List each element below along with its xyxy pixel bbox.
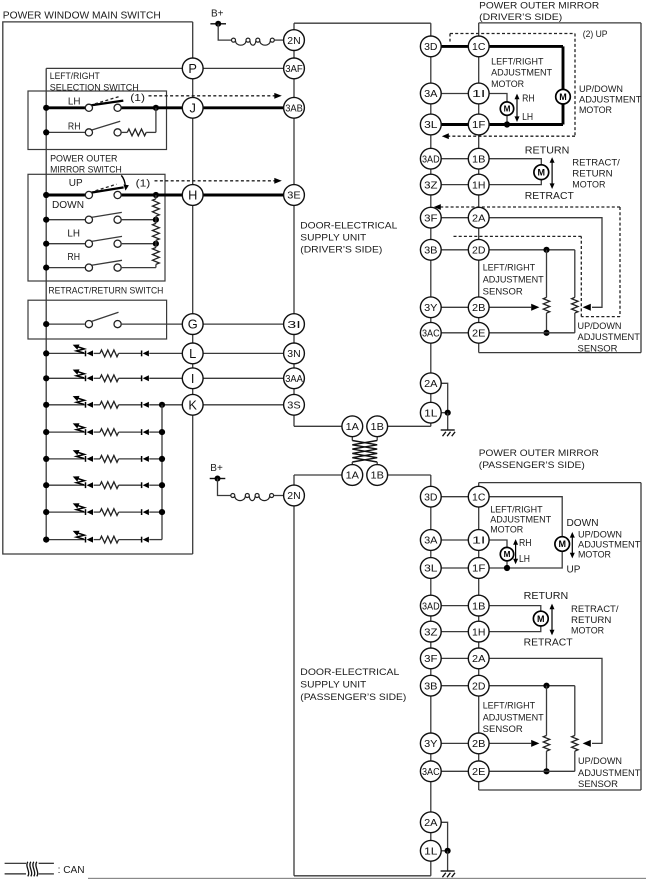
- connector 1B (lower mirror): [468, 595, 489, 616]
- bus for lower resistor rows: [161, 405, 163, 540]
- svg-text:(DRIVER’S SIDE): (DRIVER’S SIDE): [300, 244, 382, 254]
- wire supply-mirror row: [441, 93, 468, 95]
- connector 3AA: [284, 368, 305, 389]
- svg-text:M: M: [504, 105, 511, 114]
- svg-text:3AD: 3AD: [422, 154, 440, 165]
- wire K-3S: [203, 404, 284, 406]
- power outer mirror switch box: [28, 174, 165, 281]
- svg-text:3B: 3B: [424, 681, 438, 692]
- up/down adjustment motor M: [556, 89, 571, 104]
- svg-text:1B: 1B: [371, 471, 385, 482]
- connector J: [182, 97, 203, 118]
- connector 1I (lower mirror): [468, 530, 489, 551]
- connector 1L (upper supply): [420, 402, 441, 423]
- svg-text:RETURN: RETURN: [525, 146, 570, 157]
- svg-text:RETRACT/: RETRACT/: [572, 157, 620, 167]
- svg-text:SENSOR: SENSOR: [483, 287, 523, 297]
- svg-text:LEFT/RIGHT: LEFT/RIGHT: [490, 505, 543, 515]
- svg-text:MOTOR: MOTOR: [571, 626, 604, 636]
- svg-text:3AD: 3AD: [422, 601, 440, 612]
- wire supply-mirror row (passenger): [441, 770, 468, 772]
- svg-text:LH: LH: [68, 97, 81, 108]
- svg-text:3AF: 3AF: [285, 64, 303, 75]
- svg-text:2E: 2E: [472, 329, 486, 340]
- svg-text:DOOR-ELECTRICAL: DOOR-ELECTRICAL: [300, 667, 399, 677]
- adjustable resistor row 4 (unlabeled): [46, 511, 85, 513]
- connector 2B (lower mirror): [468, 733, 489, 754]
- connector 2A (lower mirror): [468, 648, 489, 669]
- svg-text:SENSOR: SENSOR: [578, 779, 618, 789]
- linkage arrows RH/LH (passenger): [515, 542, 517, 562]
- svg-text:2B: 2B: [472, 739, 486, 750]
- connector 3Z (lower supply): [420, 621, 441, 642]
- svg-text:RH: RH: [519, 538, 532, 549]
- svg-text:3Z: 3Z: [424, 180, 437, 191]
- svg-text:RH: RH: [67, 252, 80, 263]
- svg-text:RETRACT/RETURN SWITCH: RETRACT/RETURN SWITCH: [48, 286, 163, 296]
- wire supply-mirror row (passenger): [441, 742, 468, 744]
- up/down adjustment motor M (passenger): [555, 537, 570, 552]
- svg-text:1L: 1L: [424, 408, 438, 419]
- wire 2A-1L ground (upper): [441, 383, 448, 412]
- svg-text:2D: 2D: [472, 246, 485, 257]
- adjustable resistor row K: [46, 404, 85, 406]
- svg-text:3I: 3I: [287, 320, 300, 331]
- wire supply-mirror row (passenger): [441, 631, 468, 633]
- svg-text:RH: RH: [68, 122, 81, 133]
- svg-text:3L: 3L: [424, 120, 438, 131]
- svg-text:3AC: 3AC: [422, 767, 440, 778]
- wire supply-mirror row: [441, 306, 468, 308]
- svg-text:POWER OUTER MIRROR: POWER OUTER MIRROR: [479, 1, 599, 11]
- svg-text:3Y: 3Y: [424, 739, 438, 750]
- left/right adjustment sensor resistor (passenger): [546, 686, 548, 736]
- svg-text:(PASSENGER’S SIDE): (PASSENGER’S SIDE): [300, 692, 406, 702]
- svg-text:ADJUSTMENT: ADJUSTMENT: [483, 712, 544, 722]
- adjustable resistor row 3 (unlabeled): [46, 484, 85, 486]
- svg-text:MIRROR SWITCH: MIRROR SWITCH: [50, 164, 122, 174]
- svg-text:L: L: [189, 346, 196, 361]
- CAN legend symbol: [5, 862, 26, 864]
- connector 1H (upper mirror): [468, 174, 489, 195]
- switch RH row: [46, 131, 86, 133]
- CAN twisted pair: [351, 437, 353, 441]
- wire supply-mirror row (passenger): [441, 657, 468, 659]
- connector 3Y (upper supply): [420, 297, 441, 318]
- wire supply-mirror row: [441, 332, 468, 334]
- svg-text:H: H: [188, 188, 197, 203]
- connector 2A (upper mirror): [468, 207, 489, 228]
- svg-text:3AB: 3AB: [285, 104, 303, 115]
- B+ feed lower: [210, 478, 226, 480]
- connector 1H (lower mirror): [468, 621, 489, 642]
- power window main switch box: [3, 22, 193, 554]
- linkage arrows return/retract (passenger): [551, 607, 553, 633]
- wire supply-mirror row: [441, 158, 468, 160]
- svg-text:2D: 2D: [472, 681, 485, 692]
- svg-text:K: K: [188, 397, 197, 412]
- connector 3F (lower supply): [420, 648, 441, 669]
- connector 3A (lower supply): [420, 530, 441, 551]
- wire J-3AB: [203, 106, 284, 109]
- connector 1F (upper mirror): [468, 114, 489, 135]
- dashed linkage to sensors: [437, 206, 621, 208]
- adjustable resistor row 5 (unlabeled): [46, 539, 85, 541]
- svg-text:1C: 1C: [472, 42, 486, 53]
- left/right adjustment motor wiring (passenger): [489, 540, 507, 548]
- connector 3I: [284, 314, 305, 335]
- svg-text:3B: 3B: [424, 246, 438, 257]
- connector 3L (lower supply): [420, 558, 441, 579]
- connector 3AC (upper supply): [420, 322, 441, 343]
- wire supply-mirror row: [441, 184, 468, 186]
- connector 1B (lower): [367, 465, 388, 486]
- svg-text:3S: 3S: [287, 401, 301, 412]
- connector 1I (upper mirror): [468, 83, 489, 104]
- svg-text:UP/DOWN: UP/DOWN: [578, 756, 622, 766]
- connector L: [182, 343, 203, 364]
- svg-text:1A: 1A: [346, 471, 360, 482]
- dashed linkage (1) row H: [96, 184, 117, 191]
- connector 3AC (lower supply): [420, 761, 441, 782]
- svg-text:M: M: [537, 614, 545, 624]
- svg-text:RETURN: RETURN: [571, 615, 611, 625]
- svg-text:MOTOR: MOTOR: [579, 105, 612, 115]
- connector 2D (upper mirror): [468, 239, 489, 260]
- svg-text:(1): (1): [130, 93, 145, 104]
- connector 3L (upper supply): [420, 114, 441, 135]
- resistor chain UP-DOWN: [155, 195, 157, 199]
- svg-text:1F: 1F: [472, 120, 485, 131]
- svg-text:3F: 3F: [424, 213, 437, 224]
- retract/return motor wiring (passenger): [489, 606, 541, 612]
- svg-text:(1): (1): [136, 178, 151, 189]
- connector 2A (upper supply): [420, 373, 441, 394]
- svg-text:2E: 2E: [472, 767, 486, 778]
- connector 1C (lower mirror): [468, 486, 489, 507]
- svg-text:3L: 3L: [424, 564, 438, 575]
- svg-text:: CAN: : CAN: [58, 865, 85, 876]
- svg-text:LEFT/RIGHT: LEFT/RIGHT: [50, 71, 100, 81]
- svg-text:2N: 2N: [287, 36, 300, 47]
- power outer mirror (passenger) box: [479, 482, 641, 484]
- svg-text:ADJUSTMENT: ADJUSTMENT: [490, 515, 551, 525]
- left/right adjustment motor M: [500, 102, 513, 115]
- svg-text:1B: 1B: [472, 601, 486, 612]
- svg-text:1F: 1F: [472, 564, 485, 575]
- svg-text:J: J: [189, 100, 195, 115]
- svg-text:2A: 2A: [424, 379, 438, 390]
- svg-text:POWER WINDOW MAIN SWITCH: POWER WINDOW MAIN SWITCH: [3, 10, 161, 21]
- switch DOWN row: [46, 219, 85, 221]
- svg-text:3A: 3A: [424, 89, 438, 100]
- svg-text:3N: 3N: [287, 349, 300, 360]
- connector K: [182, 394, 203, 415]
- adjustable resistor row 2 (unlabeled): [46, 458, 85, 460]
- wire 2A-1L ground (lower): [441, 822, 447, 851]
- wire H-3E: [203, 194, 284, 197]
- svg-text:POWER OUTER MIRROR: POWER OUTER MIRROR: [479, 448, 599, 458]
- svg-text:G: G: [188, 317, 198, 332]
- dashed box (2) UP: [450, 33, 575, 35]
- retract/return motor M (passenger): [533, 611, 548, 626]
- wire supply-mirror row (passenger): [441, 567, 468, 569]
- connector 3S: [284, 394, 305, 415]
- svg-text:SENSOR: SENSOR: [483, 724, 523, 734]
- svg-text:M: M: [504, 550, 511, 559]
- connector 3AD (upper supply): [420, 148, 441, 169]
- retract/return motor M: [534, 165, 549, 180]
- resistor chain LH-RH: [155, 244, 157, 248]
- svg-text:ADJUSTMENT: ADJUSTMENT: [491, 68, 552, 78]
- wire G-3I: [203, 323, 284, 325]
- left/right selection switch box: [28, 91, 167, 150]
- connector 3Y (lower supply): [420, 733, 441, 754]
- connector 2D (lower mirror): [468, 675, 489, 696]
- connector 3E: [284, 185, 305, 206]
- svg-text:1H: 1H: [472, 180, 485, 191]
- linkage arrows DOWN/UP: [571, 535, 573, 556]
- connector 3B (lower supply): [420, 675, 441, 696]
- wire 2E: [489, 332, 575, 334]
- svg-text:M: M: [558, 539, 566, 549]
- connector 1C (upper mirror): [468, 36, 489, 57]
- linkage arrows RH/LH: [516, 97, 518, 120]
- svg-text:1H: 1H: [472, 627, 485, 638]
- svg-text:ADJUSTMENT: ADJUSTMENT: [483, 275, 544, 285]
- svg-text:UP: UP: [567, 564, 581, 575]
- svg-text:3D: 3D: [424, 42, 437, 53]
- svg-text:2B: 2B: [472, 303, 486, 314]
- svg-text:RETURN: RETURN: [572, 168, 612, 178]
- door-electrical supply unit (passenger) box: [294, 474, 342, 476]
- wire supply-mirror row (passenger): [441, 539, 468, 541]
- svg-text:2A: 2A: [424, 818, 438, 829]
- wire 2B to left/right sensor wiper: [489, 306, 531, 308]
- wire 2D to sensors: [489, 249, 575, 251]
- power outer mirror (driver) box: [479, 22, 641, 24]
- svg-text:3AC: 3AC: [422, 329, 440, 340]
- svg-text:I: I: [191, 371, 195, 386]
- door-electrical supply unit (driver) box: [294, 22, 431, 24]
- connector 1B (upper): [367, 416, 388, 437]
- svg-text:ADJUSTMENT: ADJUSTMENT: [579, 95, 642, 105]
- connector 3B (upper supply): [420, 239, 441, 260]
- svg-text:P: P: [188, 61, 197, 76]
- svg-text:MOTOR: MOTOR: [572, 179, 605, 189]
- connector 3AB: [284, 97, 305, 118]
- linkage arrows return/retract: [551, 160, 553, 186]
- wire supply-mirror row (passenger): [441, 496, 468, 498]
- connector 1A (lower): [342, 465, 363, 486]
- svg-text:POWER OUTER: POWER OUTER: [50, 153, 118, 163]
- svg-text:UP/DOWN: UP/DOWN: [579, 84, 623, 94]
- wire P-3AF: [203, 67, 284, 69]
- svg-text:MOTOR: MOTOR: [578, 550, 611, 560]
- resistor RH: [127, 129, 146, 136]
- connector 2E (upper mirror): [468, 322, 489, 343]
- connector 1A (upper): [342, 416, 363, 437]
- connector 3D (lower supply): [420, 486, 441, 507]
- svg-text:3A: 3A: [424, 536, 438, 547]
- svg-text:LH: LH: [522, 112, 533, 123]
- ground (lower): [441, 870, 455, 872]
- connector 3F (upper supply): [420, 207, 441, 228]
- svg-text:(2) UP: (2) UP: [583, 28, 608, 39]
- svg-text:LEFT/RIGHT: LEFT/RIGHT: [491, 57, 544, 67]
- switch LH row (mirror): [46, 243, 85, 245]
- retract/return motor wiring: [489, 159, 541, 165]
- svg-text:(PASSENGER’S SIDE): (PASSENGER’S SIDE): [479, 460, 585, 470]
- adjustable resistor row 1 (unlabeled): [46, 431, 85, 433]
- svg-text:UP/DOWN: UP/DOWN: [578, 529, 622, 539]
- wire supply-mirror row: [441, 249, 468, 251]
- svg-text:1B: 1B: [371, 422, 385, 433]
- left/right adjustment motor M (passenger): [500, 547, 513, 560]
- svg-text:UP/DOWN: UP/DOWN: [578, 321, 622, 331]
- connector 3A (upper supply): [420, 83, 441, 104]
- connector G: [182, 314, 203, 335]
- svg-text:RETRACT: RETRACT: [524, 637, 573, 648]
- svg-text:LEFT/RIGHT: LEFT/RIGHT: [483, 263, 536, 273]
- svg-text:ADJUSTMENT: ADJUSTMENT: [578, 540, 641, 550]
- retract/return switch box: [28, 300, 167, 339]
- wire 2A to up/down sensor wiper: [489, 218, 602, 308]
- svg-text:DOWN: DOWN: [52, 200, 84, 211]
- wire L-3N: [203, 352, 284, 354]
- svg-text:MOTOR: MOTOR: [490, 525, 523, 535]
- svg-text:B+: B+: [210, 463, 223, 474]
- svg-text:3F: 3F: [424, 654, 437, 665]
- svg-text:DOOR-ELECTRICAL: DOOR-ELECTRICAL: [300, 221, 397, 231]
- connector 2N (upper): [284, 30, 305, 51]
- svg-text:RETRACT: RETRACT: [525, 191, 574, 202]
- adjustable resistor row I: [46, 377, 85, 379]
- page bottom rule: [88, 878, 646, 879]
- svg-text:M: M: [538, 167, 546, 177]
- svg-text:3AA: 3AA: [285, 374, 303, 385]
- connector 3Z (upper supply): [420, 174, 441, 195]
- svg-text:DOWN: DOWN: [567, 518, 599, 529]
- connector I: [182, 368, 203, 389]
- svg-text:(DRIVER’S SIDE): (DRIVER’S SIDE): [479, 12, 562, 22]
- retract switch row: [46, 323, 84, 325]
- connector 2E (lower mirror): [468, 761, 489, 782]
- connector P: [182, 58, 203, 79]
- connector 2B (upper mirror): [468, 297, 489, 318]
- wire 2E (passenger): [489, 770, 575, 772]
- wire supply-mirror row (passenger): [441, 605, 468, 607]
- switch UP row: [46, 194, 85, 197]
- resistor chain DOWN-LH: [155, 220, 157, 224]
- svg-text:1B: 1B: [472, 154, 486, 165]
- svg-text:SUPPLY UNIT: SUPPLY UNIT: [300, 680, 366, 690]
- svg-text:M: M: [559, 92, 567, 102]
- B+ feed upper: [210, 23, 226, 25]
- dashed linkage (1) row J: [95, 96, 120, 104]
- svg-text:1L: 1L: [424, 847, 438, 858]
- svg-text:1I: 1I: [472, 536, 485, 547]
- switch LH row: [46, 106, 85, 109]
- connector 3D (upper supply): [420, 36, 441, 57]
- svg-text:LEFT/RIGHT: LEFT/RIGHT: [483, 701, 536, 711]
- connector 1L (lower supply): [420, 840, 441, 861]
- svg-text:RH: RH: [522, 93, 535, 104]
- wire supply-mirror row: [441, 123, 468, 126]
- ground (upper): [441, 429, 455, 431]
- svg-text:SELECTION SWITCH: SELECTION SWITCH: [50, 82, 139, 92]
- svg-text:3Z: 3Z: [424, 627, 437, 638]
- svg-text:MOTOR: MOTOR: [491, 79, 524, 89]
- svg-text:3E: 3E: [287, 191, 301, 202]
- connector 1F (lower mirror): [468, 558, 489, 579]
- svg-text:RETURN: RETURN: [524, 591, 569, 602]
- wire I-3AA: [203, 377, 284, 379]
- svg-text:1I: 1I: [472, 89, 485, 100]
- connector 1B (upper mirror): [468, 148, 489, 169]
- wire 2D to sensors (passenger): [489, 685, 575, 687]
- svg-text:ADJUSTMENT: ADJUSTMENT: [578, 768, 641, 778]
- svg-text:UP: UP: [69, 178, 83, 189]
- connector 3AF: [284, 58, 305, 79]
- connector 3AD (lower supply): [420, 595, 441, 616]
- up/down adjustment motor circuit (passenger): [489, 497, 562, 537]
- svg-text:ADJUSTMENT: ADJUSTMENT: [578, 332, 641, 342]
- svg-text:B+: B+: [211, 9, 224, 20]
- connector 2A (lower supply): [420, 812, 441, 833]
- up/down adjustment sensor resistor: [572, 297, 578, 313]
- adjustable resistor row L: [46, 352, 85, 354]
- svg-text:1C: 1C: [472, 492, 486, 503]
- switch RH row (mirror): [46, 267, 85, 269]
- left/right adjustment motor wiring: [489, 94, 507, 103]
- svg-text:RETRACT/: RETRACT/: [571, 604, 619, 614]
- wire 2B to left/right sensor wiper (passenger): [489, 742, 531, 744]
- svg-text:2A: 2A: [472, 654, 486, 665]
- svg-text:SUPPLY UNIT: SUPPLY UNIT: [300, 232, 366, 242]
- svg-text:LH: LH: [519, 554, 530, 565]
- up/down adjustment sensor resistor (passenger): [572, 736, 578, 752]
- wire supply-mirror row (passenger): [441, 685, 468, 687]
- svg-text:2N: 2N: [287, 491, 300, 502]
- connector 2N (lower): [284, 485, 305, 506]
- svg-text:2A: 2A: [472, 213, 486, 224]
- svg-text:LH: LH: [67, 228, 80, 239]
- svg-text:3Y: 3Y: [424, 303, 438, 314]
- wire 2A to up/down sensor wiper (passenger): [489, 658, 602, 743]
- wire P supply bus: [46, 67, 182, 69]
- svg-text:1A: 1A: [346, 422, 360, 433]
- connector H: [182, 185, 203, 206]
- wire supply-mirror row: [441, 45, 468, 48]
- svg-text:SENSOR: SENSOR: [578, 343, 618, 353]
- wire supply-mirror row: [441, 217, 468, 219]
- left/right adjustment sensor resistor: [546, 250, 548, 298]
- up/down adjustment motor circuit (thick loop): [489, 45, 563, 48]
- connector 3N: [284, 343, 305, 364]
- svg-text:3D: 3D: [424, 492, 437, 503]
